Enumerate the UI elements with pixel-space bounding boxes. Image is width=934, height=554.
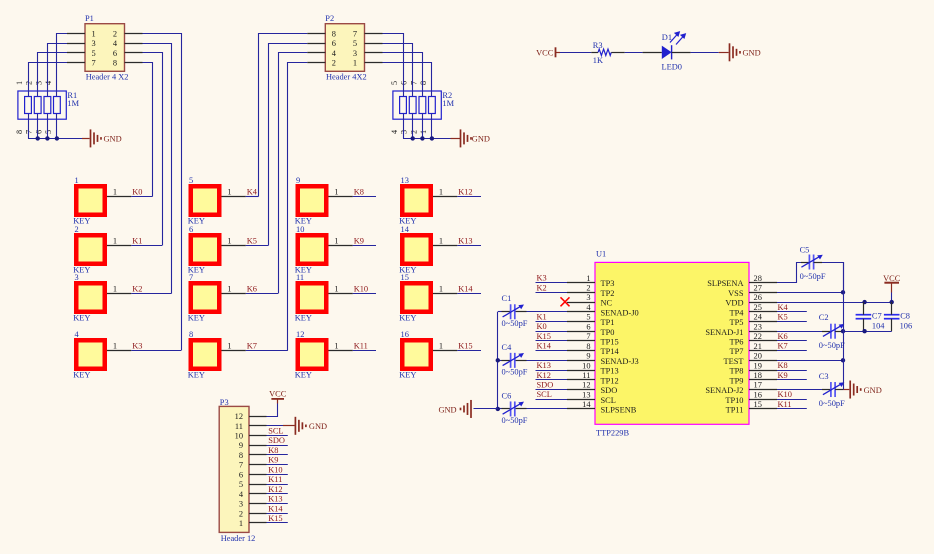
svg-text:TP13: TP13: [601, 367, 619, 376]
wire / net label K11 (U1 pin 15): [777, 400, 807, 409]
svg-text:C8: C8: [900, 312, 910, 321]
svg-text:3: 3: [586, 293, 590, 302]
svg-text:7: 7: [239, 461, 243, 470]
connector P2 (Header 4X2): [325, 14, 366, 82]
svg-text:TP0: TP0: [601, 328, 615, 337]
wire / net label K10 (P3 pin 6): [267, 465, 288, 474]
svg-text:K0: K0: [132, 188, 142, 197]
svg-text:24: 24: [754, 313, 763, 322]
no-connect cross on U1 pin 3: [561, 297, 570, 306]
P2 pin stubs: [307, 34, 382, 63]
ground symbol GND (R2): [461, 129, 490, 147]
svg-text:KEY: KEY: [399, 313, 416, 322]
key 4 pin 1 stub: [107, 342, 131, 351]
wire / net label K5 (U1 pin 24): [777, 312, 807, 321]
svg-text:KEY: KEY: [295, 313, 312, 322]
wire GND to ground bus: [474, 408, 498, 410]
svg-text:TEST: TEST: [723, 357, 743, 366]
svg-text:5: 5: [239, 480, 243, 489]
wire / net label K0: [131, 188, 152, 197]
resistor network R1 1M: [18, 91, 80, 119]
svg-text:2: 2: [239, 509, 243, 518]
svg-text:SENAD-J0: SENAD-J0: [601, 308, 639, 317]
svg-text:K12: K12: [458, 188, 472, 197]
wire C3 to right bus / GND: [835, 389, 849, 391]
svg-text:K0: K0: [537, 322, 547, 331]
svg-text:3: 3: [34, 81, 43, 85]
wire C5 to right bus: [814, 263, 844, 293]
wire P2.5 to R2 pin6: [383, 44, 413, 97]
svg-text:K13: K13: [458, 237, 472, 246]
svg-text:D1: D1: [662, 33, 672, 42]
svg-text:GND: GND: [438, 405, 456, 414]
key switch S14 (KEY, net K13): [399, 225, 433, 274]
junction dot VDD/C8-VCC: [890, 300, 894, 304]
ground symbol GND (LED): [730, 43, 761, 61]
wire / net label K2: [131, 285, 171, 294]
svg-text:K8: K8: [778, 361, 788, 370]
key switch S4 (KEY, net K3): [73, 330, 107, 380]
svg-text:K4: K4: [778, 303, 789, 312]
svg-text:15: 15: [401, 273, 409, 282]
svg-text:Header 4 X2: Header 4 X2: [86, 73, 129, 82]
svg-text:K9: K9: [778, 371, 788, 380]
svg-text:11: 11: [296, 273, 304, 282]
wire / net label K9: [353, 237, 376, 246]
wire / net label K10 (U1 pin 16): [777, 390, 807, 399]
svg-text:VCC: VCC: [536, 49, 554, 58]
key switch S15 (KEY, net K14): [399, 273, 433, 323]
svg-text:16: 16: [754, 390, 762, 399]
svg-text:1: 1: [113, 188, 117, 197]
U1 left pin stubs and numbers 1-14: [567, 274, 595, 409]
svg-text:0~50pF: 0~50pF: [502, 319, 528, 328]
R1 pin numbers: [15, 81, 53, 134]
wire / net label K1: [131, 237, 162, 246]
svg-text:1: 1: [227, 188, 231, 197]
svg-text:5: 5: [390, 81, 399, 85]
wire P2.1 to R2 pin8: [383, 63, 432, 97]
svg-text:12: 12: [235, 412, 243, 421]
wire / net label K8: [353, 188, 376, 197]
svg-text:K2: K2: [132, 285, 142, 294]
svg-text:SLPSENA: SLPSENA: [707, 279, 743, 288]
wire P2.3 to R2 pin7: [383, 53, 423, 97]
svg-text:8: 8: [586, 342, 590, 351]
svg-text:K15: K15: [458, 342, 472, 351]
svg-text:1: 1: [419, 130, 428, 134]
svg-text:7: 7: [353, 29, 357, 38]
svg-text:7: 7: [92, 59, 96, 68]
wire net K4: P2.8 to KEY5: [259, 34, 308, 197]
svg-text:25: 25: [754, 303, 762, 312]
key 3 pin 1 stub: [107, 285, 131, 294]
svg-text:TP8: TP8: [730, 367, 744, 376]
svg-text:14: 14: [582, 400, 591, 409]
svg-text:26: 26: [754, 293, 762, 302]
wire / net label K6: [246, 285, 278, 294]
svg-text:1: 1: [439, 285, 443, 294]
svg-text:12: 12: [296, 330, 304, 339]
svg-text:13: 13: [401, 176, 409, 185]
svg-text:K12: K12: [268, 485, 282, 494]
svg-text:1: 1: [334, 285, 338, 294]
svg-text:P3: P3: [220, 398, 229, 407]
svg-text:1: 1: [227, 342, 231, 351]
svg-text:15: 15: [754, 400, 762, 409]
svg-text:K14: K14: [458, 285, 473, 294]
svg-text:1M: 1M: [442, 99, 454, 108]
svg-text:10: 10: [296, 225, 304, 234]
svg-text:1: 1: [586, 274, 590, 283]
wire / net label K14 (P3 pin 2): [267, 504, 288, 513]
key switch S9 (KEY, net K8): [295, 176, 329, 226]
svg-text:6: 6: [239, 470, 243, 479]
svg-text:KEY: KEY: [73, 313, 90, 322]
svg-text:K12: K12: [537, 371, 551, 380]
svg-text:7: 7: [189, 273, 193, 282]
wire / net label K4: [246, 188, 259, 197]
svg-text:16: 16: [401, 330, 409, 339]
svg-text:1: 1: [15, 81, 24, 85]
wire / net label K9 (U1 pin 18): [777, 371, 807, 380]
svg-text:TP15: TP15: [601, 338, 619, 347]
svg-text:K11: K11: [778, 400, 792, 409]
svg-text:10: 10: [235, 432, 243, 441]
svg-text:K5: K5: [778, 312, 788, 321]
svg-text:TP7: TP7: [730, 347, 744, 356]
wire net K7: P2.2 to KEY8: [288, 63, 308, 351]
power port VCC (P3): [269, 389, 287, 403]
svg-text:C3: C3: [819, 372, 829, 381]
resistor R3 1K: [591, 41, 624, 65]
svg-text:6: 6: [586, 322, 590, 331]
wire / net label K3 (U1 pin 1): [536, 274, 568, 283]
svg-text:K13: K13: [268, 495, 282, 504]
svg-text:K10: K10: [268, 465, 282, 474]
svg-text:K3: K3: [132, 342, 142, 351]
svg-text:8: 8: [189, 330, 193, 339]
svg-text:SDO: SDO: [268, 436, 285, 445]
wire / net label K15: [457, 342, 481, 351]
wire / net label K1 (U1 pin 5): [536, 312, 568, 321]
wire U1 pin26 (VDD) to VCC rail: [777, 302, 892, 304]
svg-text:VCC: VCC: [269, 389, 287, 398]
key switch S7 (KEY, net K6): [188, 273, 222, 323]
svg-text:TP4: TP4: [730, 308, 745, 317]
svg-text:K11: K11: [354, 342, 368, 351]
wire P3.11 to GND: [267, 425, 295, 427]
svg-text:5: 5: [92, 49, 96, 58]
key switch S11 (KEY, net K10): [295, 273, 329, 323]
svg-text:K9: K9: [268, 456, 278, 465]
svg-text:1K: 1K: [593, 56, 603, 65]
svg-text:TP14: TP14: [601, 347, 620, 356]
svg-text:1: 1: [113, 237, 117, 246]
svg-text:9: 9: [239, 441, 243, 450]
key 16 pin 1 stub: [433, 342, 457, 351]
key switch S10 (KEY, net K9): [295, 225, 329, 274]
wire P1.1 to R1 pin4: [57, 34, 68, 97]
junction dot TEST/right bus: [841, 358, 845, 362]
svg-text:23: 23: [754, 322, 762, 331]
svg-text:K7: K7: [247, 342, 257, 351]
junction dot C2/right bus: [841, 329, 845, 333]
wire / net label K13 (U1 pin 10): [536, 361, 568, 370]
wire P1.5 to R1 pin2: [38, 53, 68, 97]
svg-text:1: 1: [439, 237, 443, 246]
svg-text:9: 9: [586, 352, 590, 361]
svg-text:3: 3: [75, 273, 79, 282]
key switch S16 (KEY, net K15): [399, 330, 433, 380]
svg-text:GND: GND: [472, 135, 490, 144]
svg-text:22: 22: [754, 332, 762, 341]
wire / net label K14: [457, 285, 481, 294]
svg-text:SCL: SCL: [268, 427, 283, 436]
wire net K0: P1.8 to KEY1: [143, 63, 153, 197]
key 11 pin 1 stub: [329, 285, 353, 294]
svg-text:4: 4: [44, 81, 53, 85]
ground symbol GND (P3): [295, 417, 327, 435]
wire / net label K5: [246, 237, 268, 246]
variable capacitor C1 0~50pF: [502, 294, 528, 328]
capacitor C8 106: [884, 302, 912, 331]
svg-text:VSS: VSS: [728, 289, 744, 298]
svg-text:P2: P2: [325, 14, 334, 23]
svg-text:TP2: TP2: [601, 289, 615, 298]
svg-text:18: 18: [754, 371, 762, 380]
R1 bottom wires to ground rail: [28, 114, 90, 139]
wire / net label K12 (U1 pin 11): [536, 371, 568, 380]
svg-text:7: 7: [25, 130, 34, 134]
svg-text:TP3: TP3: [601, 279, 615, 288]
U1 right pin stubs and numbers 28-15: [749, 274, 777, 409]
ground symbol GND (U1 left): [438, 400, 471, 418]
svg-text:TP10: TP10: [725, 396, 743, 405]
svg-text:8: 8: [113, 59, 117, 68]
svg-text:KEY: KEY: [188, 370, 205, 379]
svg-text:K5: K5: [247, 237, 257, 246]
key 15 pin 1 stub: [433, 285, 457, 294]
wire / net label K0 (U1 pin 6): [536, 322, 568, 331]
variable capacitor C2 0~50pF: [819, 313, 845, 350]
svg-text:2: 2: [332, 59, 336, 68]
wire D1 to GND: [691, 52, 729, 54]
key switch S5 (KEY, net K4): [188, 176, 222, 226]
svg-text:8: 8: [332, 29, 336, 38]
svg-text:C1: C1: [502, 294, 512, 303]
svg-text:R3: R3: [593, 41, 603, 50]
svg-text:VCC: VCC: [883, 274, 901, 283]
R2 bottom wires to ground rail: [403, 114, 460, 139]
svg-text:K2: K2: [537, 283, 547, 292]
svg-text:1: 1: [334, 188, 338, 197]
svg-text:6: 6: [332, 39, 336, 48]
wire VCC to R3: [560, 52, 591, 54]
IC U1 TTP229B: [595, 249, 749, 437]
wire U1 to C1 / ground bus: [498, 311, 567, 313]
R2 pin numbers: [390, 81, 428, 134]
svg-text:C7: C7: [872, 312, 882, 321]
svg-text:14: 14: [401, 225, 410, 234]
svg-text:6: 6: [34, 130, 43, 134]
wire / net label K3: [131, 342, 181, 351]
svg-text:TP11: TP11: [726, 406, 744, 415]
svg-text:3: 3: [353, 49, 357, 58]
variable capacitor C5 0~50pF: [800, 246, 826, 281]
svg-text:TP9: TP9: [730, 376, 744, 385]
svg-text:20: 20: [754, 352, 762, 361]
wire P1.3 to R1 pin3: [48, 44, 68, 97]
svg-text:1: 1: [353, 59, 357, 68]
LED D1 (LED0): [643, 32, 691, 72]
svg-text:P1: P1: [85, 14, 94, 23]
svg-text:K3: K3: [537, 274, 547, 283]
wire / net label K7: [246, 342, 288, 351]
svg-text:21: 21: [754, 342, 762, 351]
junction dot C4/ground bus: [496, 358, 500, 362]
svg-text:NC: NC: [601, 299, 613, 308]
svg-text:6: 6: [189, 225, 193, 234]
key 14 pin 1 stub: [433, 237, 457, 246]
svg-text:1: 1: [113, 342, 117, 351]
svg-text:Header 12: Header 12: [221, 534, 256, 543]
svg-text:K11: K11: [268, 475, 282, 484]
svg-text:KEY: KEY: [188, 313, 205, 322]
svg-text:SENAD-J1: SENAD-J1: [705, 328, 743, 337]
svg-text:8: 8: [239, 451, 243, 460]
svg-text:2: 2: [113, 29, 117, 38]
svg-text:SENAD-J3: SENAD-J3: [601, 357, 639, 366]
svg-text:106: 106: [900, 322, 913, 331]
wire / net label K9 (P3 pin 7): [267, 456, 288, 465]
svg-text:TP1: TP1: [601, 318, 615, 327]
svg-text:4: 4: [390, 130, 399, 134]
svg-text:5: 5: [189, 176, 193, 185]
wire net K1: P1.6 to KEY2: [143, 53, 163, 246]
svg-text:KEY: KEY: [73, 370, 90, 379]
svg-text:3: 3: [239, 500, 243, 509]
wire U1 to C6 / ground bus: [498, 408, 567, 410]
key 5 pin 1 stub: [222, 188, 246, 197]
svg-text:0~50pF: 0~50pF: [502, 416, 528, 425]
svg-text:28: 28: [754, 274, 762, 283]
key switch S13 (KEY, net K12): [399, 176, 433, 226]
svg-text:SDO: SDO: [537, 381, 554, 390]
wire / net label K7 (U1 pin 21): [777, 342, 807, 351]
svg-text:0~50pF: 0~50pF: [800, 272, 826, 281]
junction dots R2 ground rail: [411, 136, 435, 140]
svg-text:K6: K6: [247, 285, 257, 294]
wire / net label K12: [457, 188, 481, 197]
svg-text:9: 9: [296, 176, 300, 185]
svg-text:K10: K10: [354, 285, 368, 294]
wire / net label K6 (U1 pin 22): [777, 332, 807, 341]
wire / net label K15 (U1 pin 7): [536, 332, 568, 341]
svg-text:K15: K15: [268, 514, 282, 523]
svg-text:TTP229B: TTP229B: [596, 428, 629, 437]
wire U1 pin17 to C3: [777, 389, 831, 391]
svg-text:3: 3: [92, 39, 96, 48]
svg-text:7: 7: [409, 81, 418, 85]
svg-text:3: 3: [400, 130, 409, 134]
svg-text:SENAD-J2: SENAD-J2: [705, 386, 743, 395]
svg-text:1M: 1M: [67, 99, 79, 108]
wire / net label SDO (P3 pin 9): [267, 436, 288, 445]
svg-text:K1: K1: [132, 237, 142, 246]
svg-text:11: 11: [235, 422, 243, 431]
power port VCC (LED circuit): [536, 47, 560, 57]
key 10 pin 1 stub: [329, 237, 353, 246]
wire U1 pin23 to C2: [777, 331, 831, 333]
svg-text:K7: K7: [778, 342, 788, 351]
wire U1 pin28 to C5: [777, 263, 809, 283]
svg-text:2: 2: [25, 81, 34, 85]
svg-text:K15: K15: [537, 332, 551, 341]
wire net K5: P2.6 to KEY6: [269, 44, 308, 246]
ground symbol GND (U1 right): [850, 381, 882, 399]
wire / net label K10: [353, 285, 376, 294]
svg-text:0~50pF: 0~50pF: [502, 368, 528, 377]
ground bus vertical wire (C1-C4-C6): [497, 312, 499, 409]
key switch S2 (KEY, net K1): [73, 225, 107, 274]
key switch S3 (KEY, net K2): [73, 273, 107, 323]
wire P2.7 to R2 pin5: [383, 34, 404, 97]
junction dot VSS/right bus: [841, 290, 845, 294]
svg-text:KEY: KEY: [295, 370, 312, 379]
key 9 pin 1 stub: [329, 188, 353, 197]
junction dot C6/ground bus: [496, 407, 500, 411]
key 8 pin 1 stub: [222, 342, 246, 351]
svg-text:104: 104: [872, 322, 885, 331]
wire / net label K12 (P3 pin 4): [267, 485, 288, 494]
wire / net label SDO (U1 pin 12): [536, 381, 568, 390]
connector P1 (Header 4 X2): [85, 14, 128, 82]
svg-text:1: 1: [439, 188, 443, 197]
wire net K6: P2.4 to KEY7: [279, 53, 308, 294]
P1 pin stubs: [67, 34, 143, 63]
wire / net label K11 (P3 pin 5): [267, 475, 288, 484]
svg-text:K13: K13: [537, 361, 551, 370]
svg-text:1: 1: [227, 285, 231, 294]
svg-text:2: 2: [586, 284, 590, 293]
right bus vertical wire (C5 to GND): [843, 262, 845, 390]
wire / net label K8 (P3 pin 8): [267, 446, 288, 455]
wire U1 pin27 (VSS) to right bus: [777, 292, 843, 294]
svg-text:C6: C6: [502, 391, 512, 400]
P3 pin stubs: [249, 417, 267, 523]
wire / net label SCL (U1 pin 13): [536, 390, 568, 399]
svg-text:1: 1: [239, 519, 243, 528]
svg-text:K4: K4: [247, 188, 258, 197]
svg-text:K9: K9: [354, 237, 364, 246]
svg-text:19: 19: [754, 361, 762, 370]
svg-text:SCL: SCL: [537, 390, 552, 399]
wire / net label SCL (P3 pin 10): [267, 427, 288, 436]
svg-text:12: 12: [582, 381, 590, 390]
key 7 pin 1 stub: [222, 285, 246, 294]
svg-text:17: 17: [754, 381, 762, 390]
svg-text:6: 6: [400, 81, 409, 85]
svg-text:TP5: TP5: [730, 318, 744, 327]
wire / net label K8 (U1 pin 19): [777, 361, 807, 370]
svg-text:13: 13: [582, 390, 590, 399]
wire / net label K14 (U1 pin 8): [536, 342, 568, 351]
svg-text:1: 1: [113, 285, 117, 294]
svg-text:GND: GND: [309, 422, 327, 431]
svg-text:K1: K1: [537, 312, 547, 321]
svg-text:1: 1: [334, 342, 338, 351]
